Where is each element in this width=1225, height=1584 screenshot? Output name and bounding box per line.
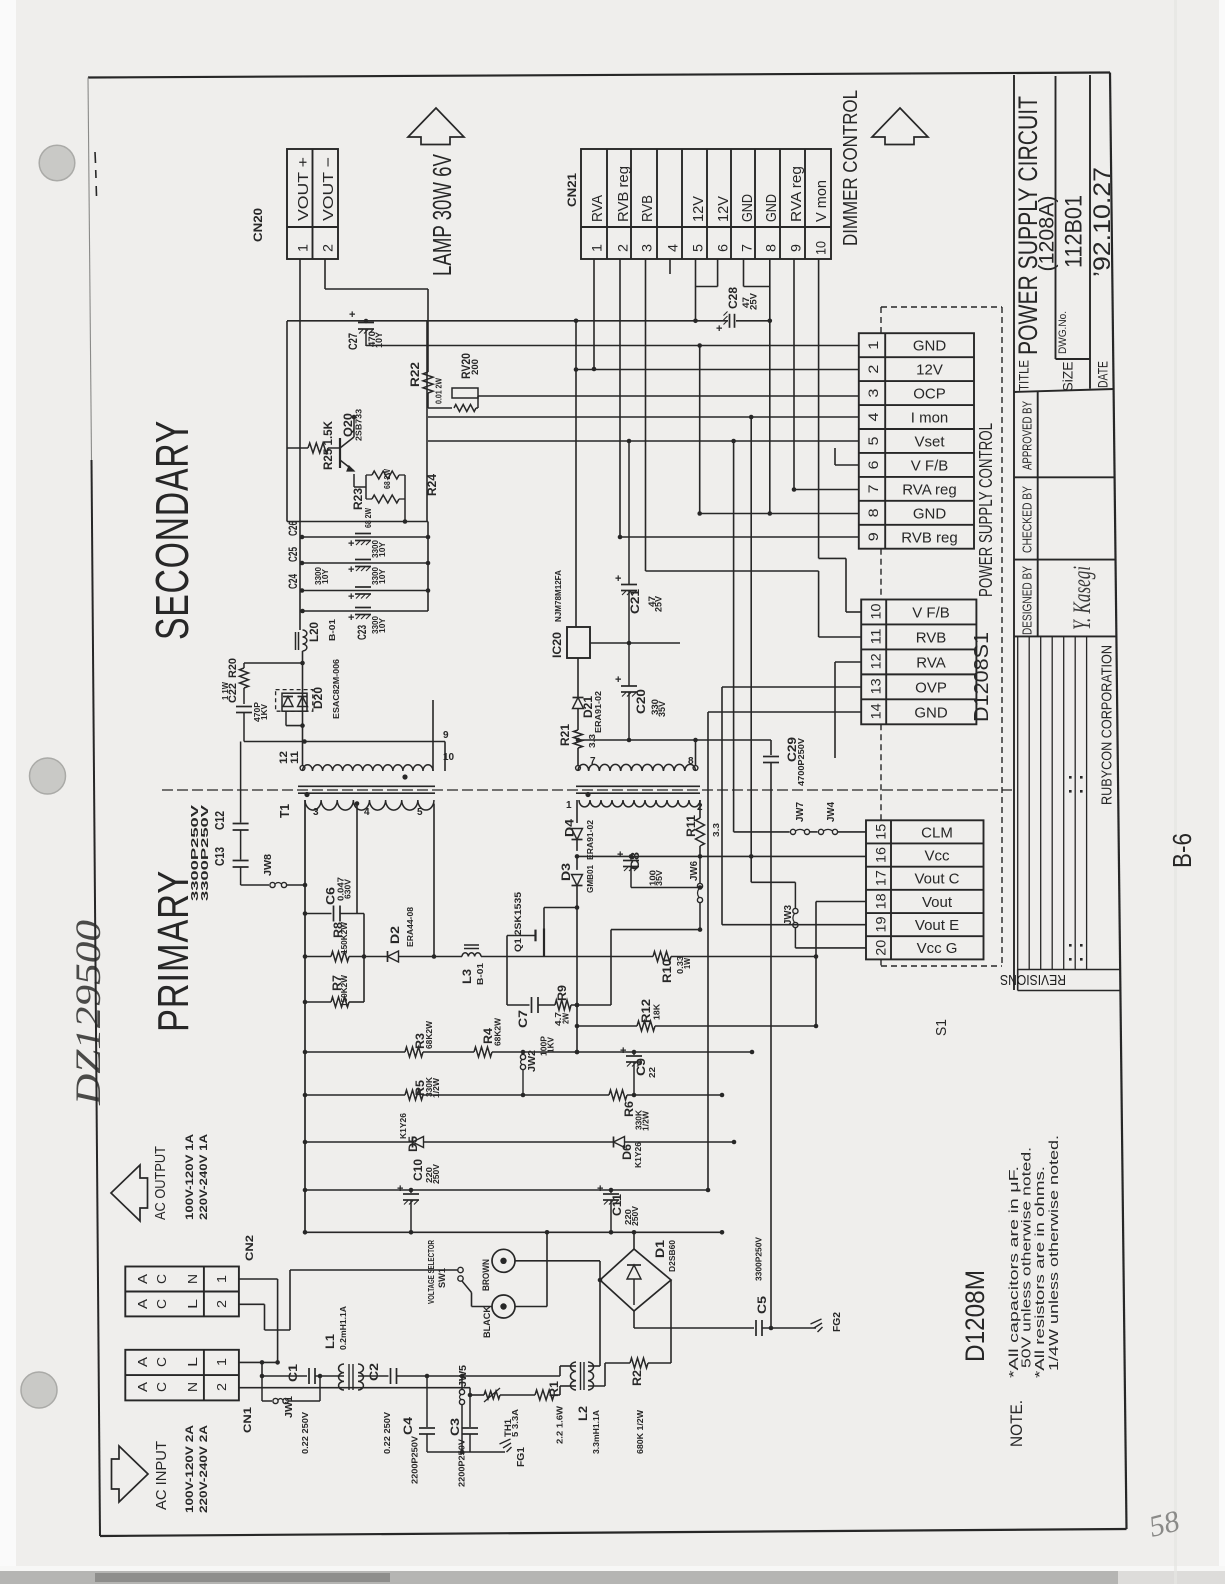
title block divider dwg/date — [1089, 75, 1091, 389]
capacitor C11 — [610, 1190, 612, 1193]
revision table lines — [1017, 636, 1019, 969]
capacitor C2 — [390, 1368, 392, 1384]
svg-text:+: + — [348, 538, 354, 550]
svg-text:BROWN: BROWN — [481, 1259, 492, 1291]
jumper JW1 — [261, 1376, 263, 1401]
svg-text:0.22 250V: 0.22 250V — [300, 1412, 310, 1454]
capacitor C5 — [755, 1320, 757, 1336]
wire S1 row13 OVP — [722, 686, 861, 688]
svg-text:11: 11 — [289, 751, 301, 764]
emitter resistors 68 2W pair R23 R24 — [353, 474, 355, 487]
scanner streak — [1174, 0, 1177, 1584]
rail to S1 pin8 — [700, 513, 859, 515]
svg-text:2200P250V: 2200P250V — [410, 1436, 420, 1484]
svg-text:Vset: Vset — [914, 434, 945, 451]
svg-text:11: 11 — [868, 628, 884, 644]
svg-text:C26: C26 — [288, 521, 300, 536]
svg-text:1W: 1W — [682, 957, 692, 969]
svg-text:18K: 18K — [652, 1003, 662, 1020]
svg-text:5: 5 — [417, 807, 423, 818]
primary rail 5 — [305, 1231, 722, 1233]
T1 phase dot primary — [304, 792, 309, 797]
wires T1 secondary taps 9/10 — [432, 742, 434, 772]
svg-text:GMB01: GMB01 — [585, 865, 595, 893]
secondary GND rail to S1 pin1 — [366, 345, 859, 347]
svg-text:K1Y26: K1Y26 — [398, 1113, 408, 1139]
svg-text:0.2mH1.1A: 0.2mH1.1A — [338, 1306, 348, 1350]
svg-text:Vcc G: Vcc G — [917, 940, 958, 957]
svg-text:DWG.No.: DWG.No. — [1057, 311, 1069, 354]
trimmer RV20 — [427, 393, 429, 408]
wire S1 Vout down — [815, 902, 817, 1027]
jumper JW3 — [794, 882, 796, 908]
wire Vcc up to I mon rail — [750, 417, 752, 882]
svg-text:1/2W: 1/2W — [641, 1110, 651, 1131]
revision tick marks — [1069, 776, 1072, 779]
wire S1 row16 Vcc stub — [751, 855, 866, 857]
svg-text:150K2W: 150K2W — [339, 921, 349, 954]
svg-text:ERA44-08: ERA44-08 — [405, 907, 415, 947]
svg-text:BLACK: BLACK — [482, 1306, 493, 1338]
bridge rectifier D1 D2SB60 — [600, 1249, 671, 1311]
snubber R20 C22 branch — [300, 661, 305, 666]
svg-text:L3: L3 — [462, 969, 474, 984]
svg-text:V mon: V mon — [813, 180, 830, 222]
capacitor C26 — [355, 533, 371, 535]
capacitor C28 — [729, 314, 731, 328]
bridge output to C5 — [633, 1311, 635, 1328]
S1 pin block 15-20 — [866, 820, 984, 959]
svg-text:2W: 2W — [561, 1012, 571, 1024]
transistor Q20 2SB733 — [339, 438, 341, 468]
primary rail 3 — [305, 1141, 412, 1143]
bridge connections — [633, 1232, 635, 1249]
svg-text:RVB: RVB — [916, 629, 947, 646]
svg-text:D20: D20 — [313, 687, 325, 709]
svg-text:C: C — [154, 1382, 169, 1392]
svg-text:R21: R21 — [560, 723, 572, 746]
svg-text:A: A — [135, 1357, 150, 1367]
svg-text:D2SB60: D2SB60 — [667, 1240, 677, 1272]
wire GND pair down to S1 pin8 rail — [769, 287, 771, 514]
svg-text:R24: R24 — [427, 473, 439, 496]
arrow AC OUTPUT — [111, 1165, 148, 1221]
capacitor C3 — [469, 1395, 471, 1427]
svg-text:10: 10 — [868, 603, 884, 619]
jumper JW8 — [241, 884, 269, 886]
wire CN21-7/8 join — [743, 259, 745, 287]
svg-text:IC20: IC20 — [552, 632, 564, 658]
svg-text:L1: L1 — [325, 1333, 337, 1349]
checked/designed divider — [1014, 559, 1116, 561]
frame left edge — [88, 78, 92, 461]
svg-text:NJM78M12FA: NJM78M12FA — [553, 570, 563, 622]
svg-text:C1: C1 — [288, 1363, 300, 1382]
svg-text:1: 1 — [566, 800, 572, 811]
T1 phase dot right — [585, 792, 590, 797]
svg-text:3.3: 3.3 — [711, 823, 721, 837]
svg-text:POWER SUPPLY CONTROL: POWER SUPPLY CONTROL — [976, 423, 996, 597]
svg-text:ERA91-02: ERA91-02 — [593, 691, 603, 733]
rail CN21-9 to S1 pin7 — [794, 489, 859, 491]
transformer T1 core — [298, 785, 435, 787]
T1 pin 8 terminal — [693, 766, 698, 771]
jack BLACK — [492, 1295, 515, 1318]
svg-text:TITLE: TITLE — [1016, 360, 1032, 391]
svg-text:GND: GND — [913, 338, 947, 355]
by-labels column divider — [1037, 392, 1039, 636]
svg-text:1/4W unless otherwise noted.: 1/4W unless otherwise noted. — [1046, 1135, 1061, 1371]
svg-text:68 2W: 68 2W — [383, 469, 392, 489]
wire CN21-5/6 join — [695, 259, 697, 287]
svg-text:D2: D2 — [390, 926, 402, 944]
svg-text:CN20: CN20 — [251, 208, 265, 242]
wire CN20-1 bus down — [299, 259, 301, 630]
capacitor C24 — [355, 586, 371, 588]
wire S1 row19 Vout E stub — [722, 924, 866, 926]
svg-text:2200P250V: 2200P250V — [457, 1439, 467, 1487]
svg-text:68K2W: 68K2W — [424, 1020, 434, 1049]
jumper JW6 — [699, 856, 701, 883]
resistor R9 — [555, 1000, 571, 1010]
svg-text:2SB733: 2SB733 — [354, 409, 364, 441]
capacitor C25 — [355, 559, 371, 561]
svg-text:+: + — [597, 1183, 603, 1195]
svg-text:1: 1 — [295, 244, 311, 252]
wire CN21-3 jog to S1 RVB — [646, 570, 819, 572]
approved/checked divider — [1014, 476, 1115, 478]
svg-text:CN21: CN21 — [565, 173, 579, 207]
svg-text:RVA reg: RVA reg — [788, 166, 805, 222]
wire V mon jog to S1 pin10 — [819, 557, 846, 559]
wire T1 pin3 bus down — [304, 800, 306, 1232]
svg-text:13: 13 — [868, 678, 884, 694]
svg-text:C12: C12 — [212, 811, 227, 830]
resistor R22 — [423, 372, 433, 393]
svg-text:B-6: B-6 — [1167, 833, 1197, 868]
svg-text:L: L — [185, 1299, 200, 1309]
GND link down — [699, 346, 701, 514]
wire CN2-2 — [239, 1303, 265, 1305]
T1 secondary winding right (pins 7-8) — [578, 764, 695, 771]
T1 phase dot secondary — [402, 774, 407, 779]
ground FG2 — [811, 1319, 822, 1324]
svg-text:3.3: 3.3 — [587, 734, 597, 748]
svg-text:C27: C27 — [348, 333, 360, 350]
diode D4 — [576, 800, 578, 823]
output capacitor rails — [287, 521, 428, 523]
svg-text:220V-240V 2A: 220V-240V 2A — [198, 1425, 210, 1513]
svg-text:*All resistors are in ohms.: *All resistors are in ohms. — [1032, 1166, 1047, 1378]
T1 primary winding left (pins 3-4-5) — [305, 800, 434, 810]
svg-text:3: 3 — [639, 244, 655, 252]
capacitor C6 — [303, 911, 308, 916]
svg-text:N: N — [185, 1382, 200, 1392]
wire CN21-9 down — [793, 259, 795, 490]
svg-text:C28: C28 — [728, 286, 740, 309]
diode D3 — [576, 856, 578, 870]
wire D20 left diode return — [285, 711, 287, 725]
svg-text:A: A — [135, 1274, 150, 1284]
capacitor C7 — [507, 1004, 530, 1006]
wire S1 row14 GND — [708, 711, 861, 713]
svg-text:630V: 630V — [343, 879, 353, 899]
svg-text:D5: D5 — [408, 1135, 420, 1152]
resistor R4 — [474, 1047, 492, 1057]
svg-text:V F/B: V F/B — [911, 457, 949, 474]
svg-text:CN2: CN2 — [244, 1235, 256, 1261]
capacitor C13 — [240, 830, 242, 860]
rail CN21-2 to S1 pin9 — [620, 536, 859, 538]
diode D5 — [413, 1137, 424, 1148]
arrow AC INPUT — [112, 1446, 149, 1502]
svg-text:R1: R1 — [549, 1380, 561, 1397]
capacitor C27 — [365, 321, 367, 322]
svg-text:NOTE.: NOTE. — [1007, 1400, 1026, 1447]
svg-text:25V: 25V — [654, 596, 664, 612]
svg-text:+: + — [349, 309, 355, 321]
svg-text:Vout C: Vout C — [914, 871, 959, 888]
gate wire — [507, 935, 536, 937]
svg-text:K1Y26: K1Y26 — [633, 1142, 643, 1168]
frame bottom edge — [100, 1529, 1127, 1536]
resistor R3 — [405, 1047, 423, 1057]
svg-text:680K 1/2W: 680K 1/2W — [635, 1409, 645, 1454]
svg-text:AC INPUT: AC INPUT — [154, 1441, 170, 1510]
title row bottom line — [1014, 389, 1114, 392]
connector CN20 — [287, 149, 338, 259]
svg-text:R9: R9 — [557, 985, 569, 1001]
capacitor C29 line-bridging — [770, 740, 772, 755]
svg-text:R2: R2 — [632, 1370, 644, 1386]
svg-text:10Y: 10Y — [374, 332, 384, 348]
wire CN21-10 down — [818, 259, 820, 558]
link rail A to 12V rail — [575, 321, 577, 370]
svg-text:C21: C21 — [630, 588, 642, 614]
svg-text:D1208M: D1208M — [960, 1270, 990, 1362]
svg-text:5: 5 — [690, 244, 706, 252]
arrow lamp output — [408, 108, 464, 145]
svg-text:A: A — [135, 1382, 150, 1392]
svg-text:JW4: JW4 — [826, 802, 837, 822]
wire CN21-2 down — [619, 259, 621, 537]
svg-text:100V-120V 1A: 100V-120V 1A — [184, 1134, 196, 1220]
svg-text:FG2: FG2 — [831, 1312, 843, 1332]
svg-text:68K2W: 68K2W — [493, 1017, 503, 1046]
svg-text:R10: R10 — [662, 959, 674, 983]
connector CN21 — [581, 149, 831, 259]
svg-text:10Y: 10Y — [378, 617, 387, 633]
svg-text:CN1: CN1 — [242, 1407, 254, 1433]
svg-text:250V: 250V — [630, 1206, 640, 1226]
S1 pin block 10-14 — [861, 600, 976, 725]
svg-text:10Y: 10Y — [321, 568, 330, 584]
svg-text:VOLTAGE SELECTOR: VOLTAGE SELECTOR — [426, 1240, 436, 1304]
svg-text:68 2W: 68 2W — [364, 508, 373, 528]
wire CN1-1 — [239, 1361, 278, 1363]
svg-text:10Y: 10Y — [378, 541, 387, 557]
svg-text:+: + — [348, 591, 354, 603]
svg-text:4: 4 — [665, 244, 681, 252]
svg-text:(1208A): (1208A) — [1036, 196, 1059, 272]
svg-text:RUBYCON CORPORATION: RUBYCON CORPORATION — [1099, 645, 1116, 805]
frame right edge — [1110, 73, 1127, 1530]
svg-text:200: 200 — [470, 359, 480, 375]
resistor R6 — [609, 1090, 627, 1100]
svg-text:100V-120V 2A: 100V-120V 2A — [184, 1425, 196, 1513]
svg-text:1KV: 1KV — [259, 704, 269, 720]
svg-text:R11: R11 — [686, 814, 698, 837]
svg-text:12V: 12V — [715, 196, 732, 222]
svg-text:1: 1 — [865, 340, 881, 349]
T1 pin 7 terminal — [576, 766, 581, 771]
svg-text:2: 2 — [214, 1383, 229, 1391]
svg-text:3: 3 — [313, 807, 319, 818]
svg-text:RVA: RVA — [589, 195, 606, 222]
svg-text:SECONDARY: SECONDARY — [146, 420, 198, 640]
svg-text:1: 1 — [214, 1275, 229, 1283]
svg-text:L2: L2 — [578, 1406, 590, 1421]
svg-text:R20: R20 — [227, 658, 239, 678]
svg-text:0.01 2W: 0.01 2W — [434, 377, 444, 404]
wire T1 pin8 up — [695, 740, 697, 766]
rail 12V to S1 pin2 — [576, 369, 859, 371]
svg-text:5: 5 — [865, 436, 881, 445]
svg-text:17: 17 — [872, 870, 888, 886]
svg-text:20: 20 — [872, 939, 888, 955]
svg-text:2: 2 — [214, 1300, 229, 1308]
wire CN21-1 down — [593, 259, 595, 369]
svg-text:7: 7 — [865, 484, 881, 493]
wire S1 row18 Vout stub — [816, 901, 866, 903]
svg-text:Vout E: Vout E — [915, 917, 959, 934]
svg-text:DATE: DATE — [1095, 361, 1111, 388]
capacitor C12 — [240, 742, 242, 823]
svg-text:VOUT +: VOUT + — [295, 157, 312, 221]
hole punch top — [39, 145, 75, 181]
svg-text:T1: T1 — [278, 804, 292, 818]
hole punch middle — [30, 758, 66, 794]
svg-text:+: + — [348, 564, 354, 576]
svg-text:3300P250V: 3300P250V — [199, 805, 211, 901]
svg-text:9: 9 — [443, 730, 449, 741]
wire CN2-1 — [239, 1278, 278, 1280]
jack BROWN — [492, 1249, 515, 1272]
svg-text:15: 15 — [872, 824, 888, 840]
wire S1 row11 RVB — [819, 636, 862, 638]
svg-text:3.3mH1.1A: 3.3mH1.1A — [591, 1410, 601, 1454]
T1 secondary winding left (pins 11-12 / 9-10) — [303, 765, 434, 771]
capacitor C1 — [308, 1368, 310, 1384]
svg-text:JW2: JW2 — [527, 1050, 538, 1072]
svg-text:3300P250V: 3300P250V — [754, 1237, 764, 1281]
capacitor C4 — [426, 1376, 428, 1427]
svg-text:C25: C25 — [288, 547, 300, 562]
svg-text:JW7: JW7 — [795, 802, 806, 822]
primary rail 4 — [305, 1189, 708, 1191]
svg-text:N: N — [185, 1274, 200, 1284]
wire to JW3 — [751, 881, 795, 883]
svg-text:R22: R22 — [410, 362, 422, 387]
diode D21 / resistor R21 chain — [577, 658, 579, 697]
svg-text:C24: C24 — [288, 574, 300, 589]
svg-text:RVB: RVB — [639, 195, 656, 222]
svg-text:8: 8 — [865, 508, 881, 517]
svg-text:22: 22 — [647, 1067, 657, 1078]
capacitor C9 — [633, 1052, 635, 1055]
jumper JW2 — [522, 1052, 524, 1054]
jumper JW7 — [790, 829, 795, 834]
svg-text:0.22 250V: 0.22 250V — [382, 1412, 392, 1454]
svg-text:9: 9 — [865, 532, 881, 541]
svg-text:C20: C20 — [636, 689, 648, 714]
svg-text:B-01: B-01 — [475, 963, 485, 985]
svg-text:1: 1 — [589, 244, 605, 252]
svg-text:4700P250V: 4700P250V — [796, 738, 806, 786]
line filter L2 — [570, 1362, 576, 1390]
svg-text:8: 8 — [763, 244, 779, 252]
svg-text:REVISIONS: REVISIONS — [1000, 971, 1066, 988]
svg-text:APPROVED BY: APPROVED BY — [1020, 401, 1035, 470]
svg-text:7: 7 — [590, 756, 596, 767]
capacitor C21 — [628, 441, 630, 584]
IC20 feed wire — [575, 370, 577, 628]
wire T1 pin4 down — [356, 804, 358, 914]
size cell divider — [1056, 358, 1091, 360]
svg-text:D1: D1 — [655, 1239, 667, 1258]
svg-text:Vcc: Vcc — [924, 847, 950, 864]
svg-text:35V: 35V — [654, 870, 664, 886]
svg-text:Y. Kasegi: Y. Kasegi — [1069, 566, 1096, 630]
svg-text:+: + — [620, 1045, 626, 1057]
svg-text:+: + — [716, 323, 722, 335]
svg-text:2: 2 — [320, 244, 336, 252]
svg-text:’92.10.27: ’92.10.27 — [1089, 167, 1116, 277]
svg-text:A: A — [135, 1299, 150, 1309]
svg-text:6: 6 — [865, 460, 881, 469]
svg-text:L20: L20 — [309, 622, 321, 642]
voltage selector SW1 — [458, 1267, 463, 1272]
svg-text:OCP: OCP — [913, 386, 946, 403]
rail to S1 pin5 — [428, 440, 859, 442]
T1 pin 12 terminal — [300, 766, 305, 771]
svg-text:GND: GND — [763, 194, 780, 222]
resistor R25 — [287, 447, 308, 449]
dual diode D20 — [276, 690, 313, 712]
primary/secondary divider chain line — [162, 789, 1012, 791]
svg-text:RVA reg: RVA reg — [902, 481, 956, 498]
svg-text:150K2W: 150K2W — [339, 974, 349, 1007]
svg-text:C4: C4 — [403, 1416, 415, 1435]
svg-text:C: C — [154, 1274, 169, 1284]
svg-text:1/2W: 1/2W — [431, 1077, 441, 1098]
svg-text:+: + — [617, 849, 623, 861]
svg-text:+: + — [348, 612, 354, 624]
svg-text:4: 4 — [364, 807, 370, 818]
svg-text:CLM: CLM — [921, 824, 953, 841]
thermistor TH1 — [484, 1391, 500, 1399]
wire S1 row20 Vcc G stub — [795, 947, 866, 949]
connector CN1 — [125, 1350, 239, 1401]
svg-text:DZ129500: DZ129500 — [68, 920, 108, 1106]
resistor R1 — [535, 1390, 554, 1400]
svg-text:3: 3 — [865, 388, 881, 397]
resistor R10 — [653, 952, 671, 962]
svg-text:JW3: JW3 — [783, 905, 794, 925]
svg-text:C23: C23 — [357, 625, 369, 640]
svg-text:OVP: OVP — [915, 679, 947, 696]
S1 pin block 1-9 — [859, 333, 974, 549]
